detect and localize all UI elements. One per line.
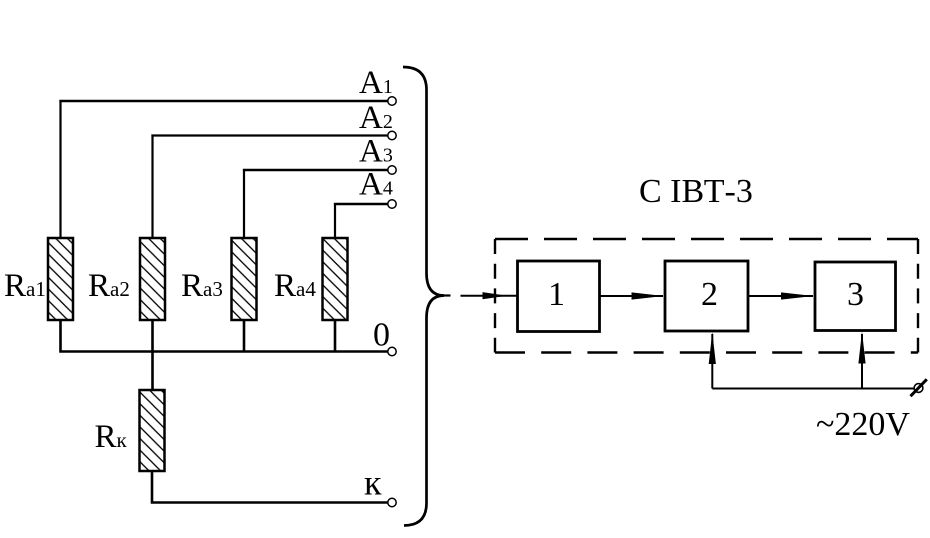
svg-text:С ІВТ-3: С ІВТ-3	[639, 173, 753, 210]
svg-text:A3: A3	[359, 134, 393, 170]
resistor R_k	[140, 390, 165, 471]
wire stub R_a4 bottom to bus	[334, 320, 337, 352]
arrowhead into block 2	[632, 292, 664, 299]
wire R_a2 bottom through bus to R_k top	[151, 320, 154, 390]
block 2	[665, 261, 748, 331]
arrowhead into block 3	[781, 292, 814, 299]
terminal 0	[388, 347, 396, 355]
svg-text:A1: A1	[359, 65, 393, 101]
wire A2 (from R_a2 top to terminal A2)	[151, 135, 153, 239]
block 1	[518, 261, 600, 332]
terminal A3	[388, 166, 396, 174]
wire mains feed to block 3	[861, 334, 863, 389]
arrowhead into block 1	[483, 292, 508, 299]
svg-text:Rк: Rк	[95, 419, 128, 455]
terminal k	[388, 498, 396, 506]
resistor R_a2	[140, 238, 165, 320]
terminal A1	[388, 97, 396, 105]
svg-text:Ra3: Ra3	[181, 268, 223, 304]
terminal A4	[388, 200, 396, 208]
wire block 1 to block 2	[600, 295, 664, 297]
wire A4 (from R_a4 top to terminal A4)	[334, 203, 336, 239]
svg-text:Ra2: Ra2	[88, 268, 130, 304]
svg-text:~220V: ~220V	[816, 406, 910, 443]
wire A3 (from R_a3 top to terminal A3)	[243, 169, 245, 239]
resistor R_a4	[323, 238, 348, 320]
wire mains horizontal feed	[712, 388, 915, 390]
svg-text:0: 0	[373, 317, 390, 354]
arrowhead up into block 3	[858, 332, 865, 364]
enclosure dashed box left edge	[494, 239, 496, 353]
wire stub R_a3 bottom to bus	[243, 320, 246, 352]
arrowhead up into block 2	[709, 332, 716, 364]
svg-text:3: 3	[847, 276, 864, 313]
svg-text:A2: A2	[359, 100, 393, 136]
svg-text:к: к	[364, 463, 382, 503]
terminal A2	[388, 131, 396, 139]
svg-text:Ra1: Ra1	[4, 268, 46, 304]
wire mains feed to block 2	[711, 334, 713, 389]
wire k (from R_k bottom to terminal k)	[152, 471, 388, 503]
brace tip tick	[444, 294, 451, 296]
block 3	[815, 262, 896, 331]
brace (curly bracket grouping terminals)	[403, 67, 444, 526]
wire block 2 to block 3	[748, 295, 813, 297]
svg-text:Ra4: Ra4	[274, 268, 316, 304]
svg-text:1: 1	[548, 276, 565, 313]
resistor R_a1	[48, 238, 73, 320]
wire A1 (from R_a1 top to terminal A1)	[59, 100, 61, 239]
wire brace to block 1	[461, 295, 518, 297]
wire 0 bus (common node 0)	[61, 320, 388, 352]
plug symbol ~220V source	[911, 379, 927, 396]
enclosure dashed box bottom edge	[495, 351, 918, 353]
enclosure C IBT-3 dashed box top edge	[495, 238, 918, 240]
svg-text:2: 2	[701, 276, 718, 313]
resistor R_a3	[232, 238, 257, 320]
enclosure dashed box right edge	[917, 239, 919, 353]
